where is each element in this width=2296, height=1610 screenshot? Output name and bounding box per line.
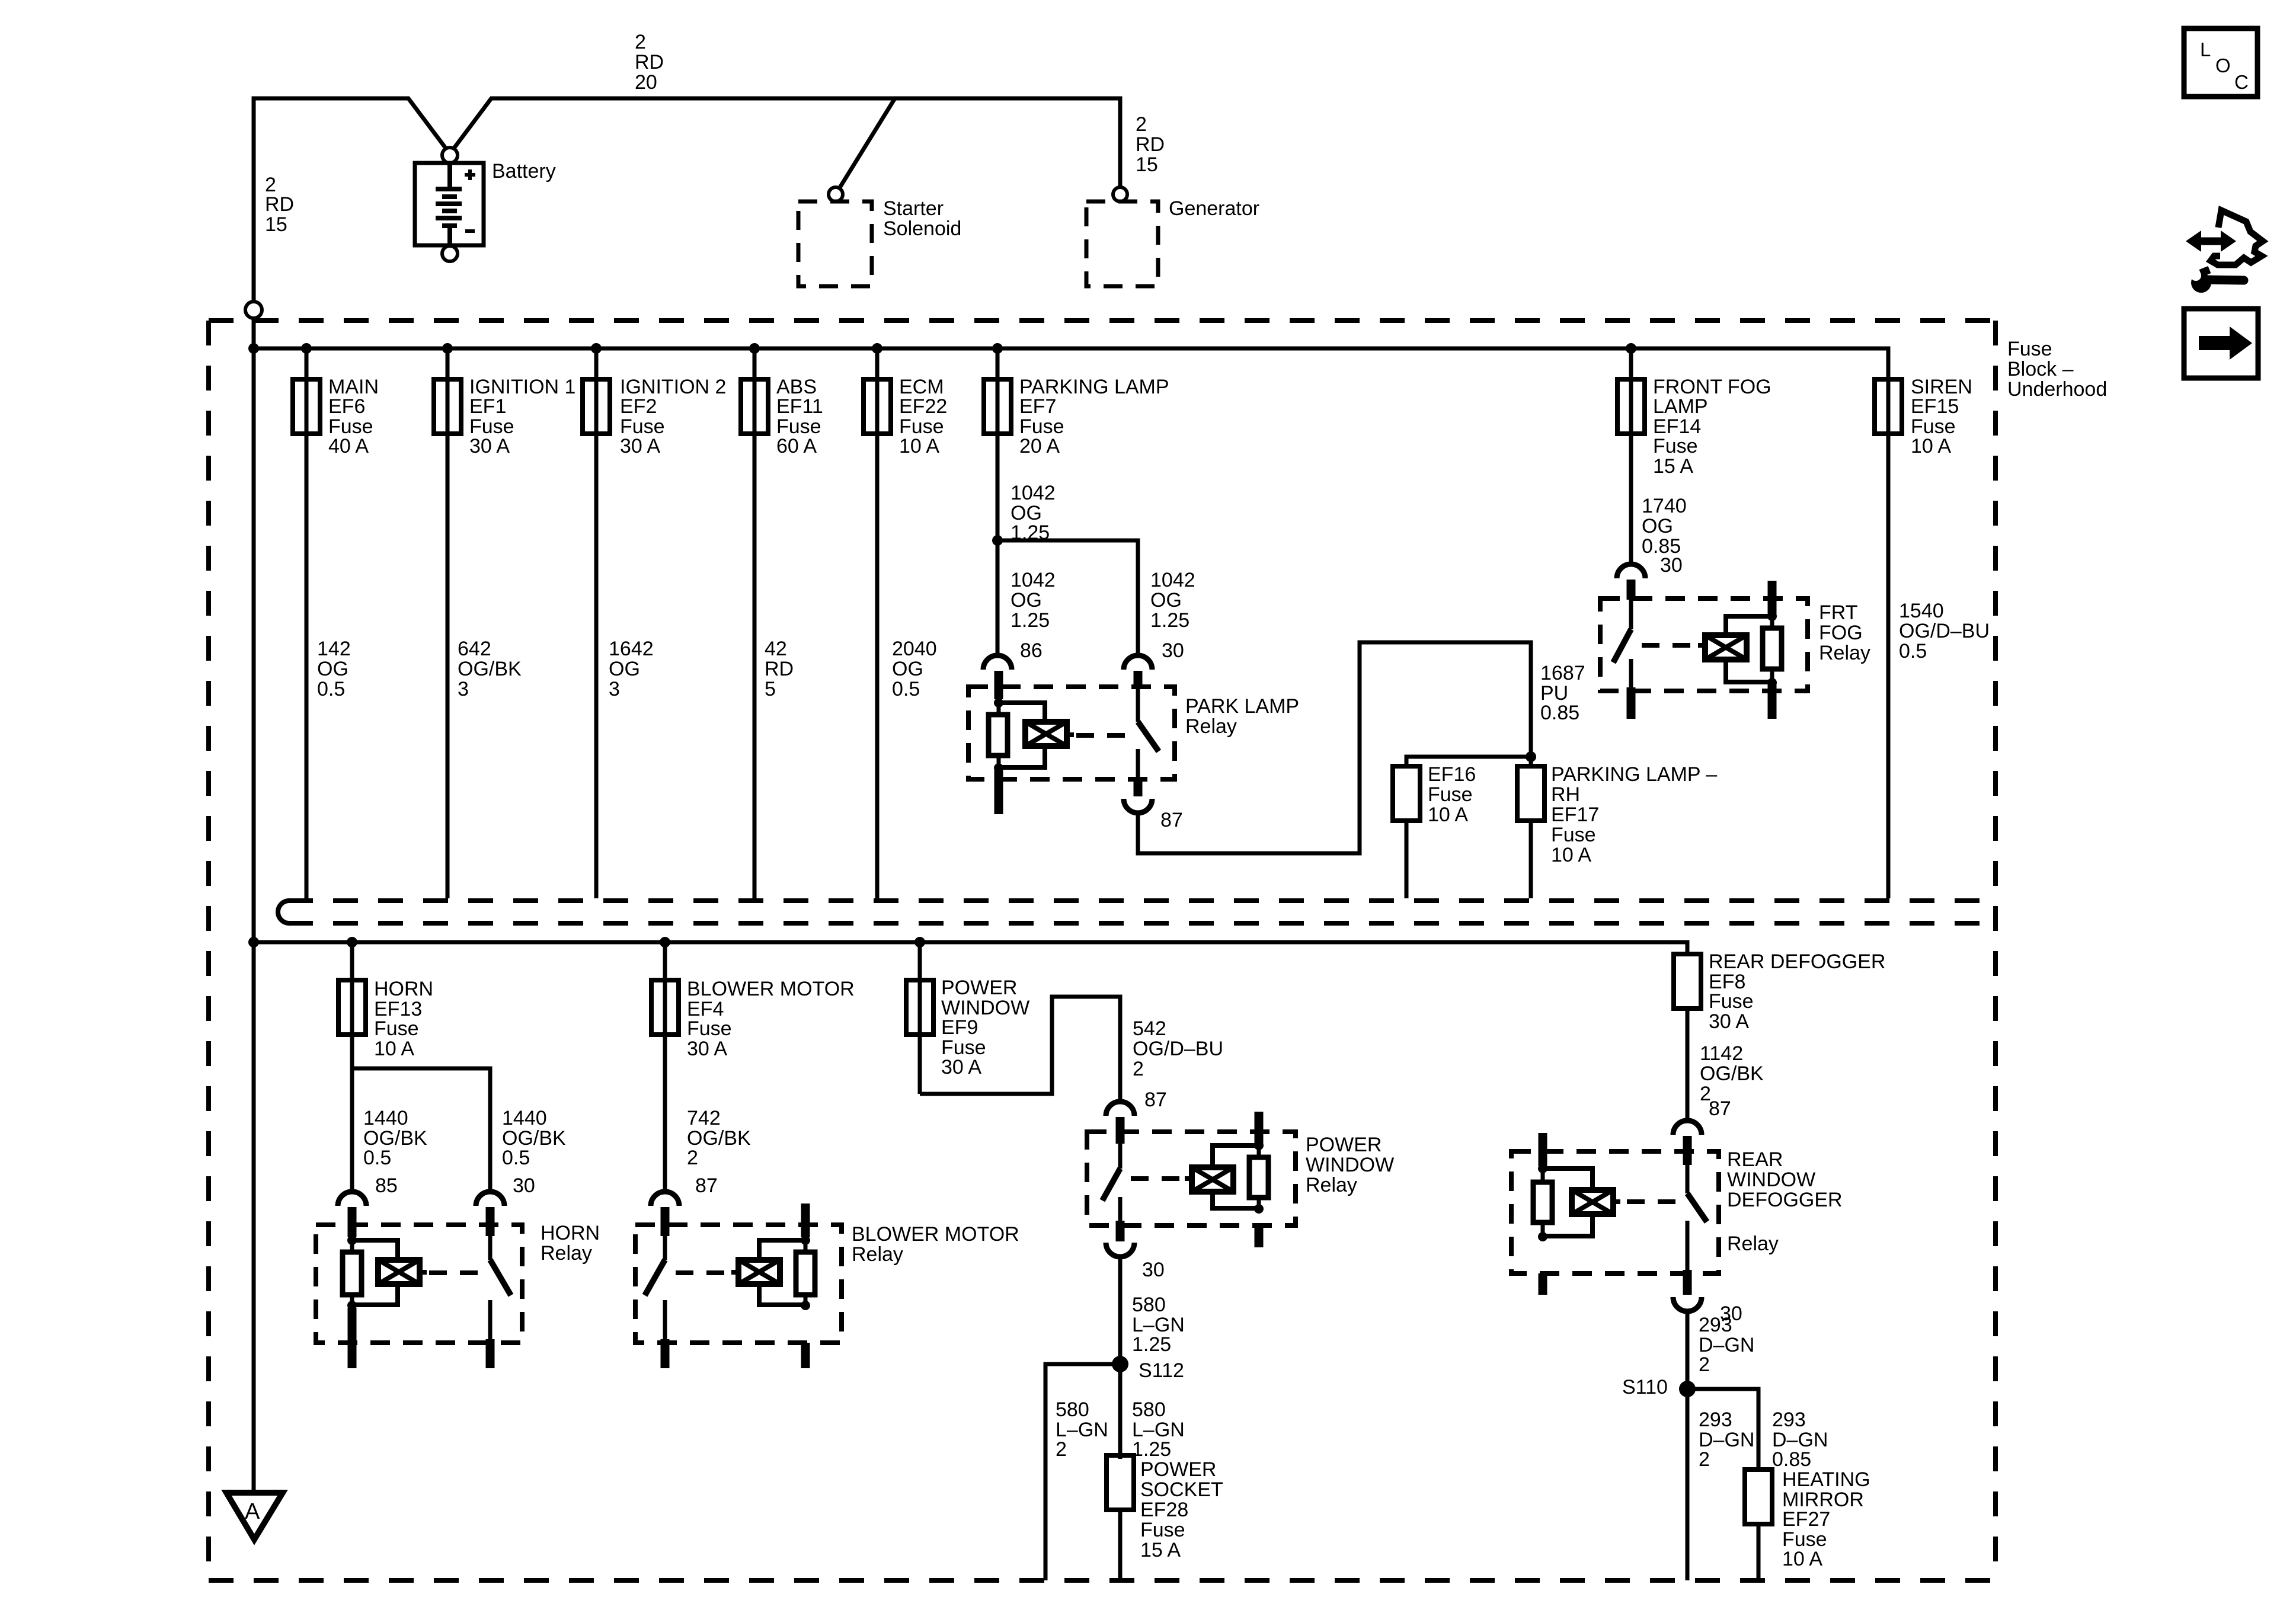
svg-text:0.85: 0.85 xyxy=(1772,1448,1811,1471)
svg-text:Relay: Relay xyxy=(541,1242,592,1265)
svg-text:1142: 1142 xyxy=(1700,1042,1743,1065)
svg-text:40 A: 40 A xyxy=(328,435,369,457)
battery xyxy=(415,163,484,245)
svg-text:1642: 1642 xyxy=(609,638,654,660)
svg-text:20 A: 20 A xyxy=(1019,435,1060,457)
svg-text:30: 30 xyxy=(1142,1259,1165,1281)
pin 87 connector arc xyxy=(1106,1102,1134,1116)
node rail2-feed xyxy=(248,937,259,948)
node PARK coil bottom xyxy=(994,763,1003,773)
fuse ECM EF22 xyxy=(864,379,891,434)
PARK coil bracket xyxy=(999,703,1045,722)
fuse block terminal circle on feed xyxy=(245,302,262,318)
svg-text:RH: RH xyxy=(1551,783,1580,806)
PW internal dashed link xyxy=(1131,1176,1183,1181)
svg-text:SOCKET: SOCKET xyxy=(1140,1478,1223,1501)
BLOWER pin 87 stub xyxy=(661,1207,670,1236)
svg-text:15: 15 xyxy=(265,213,287,236)
svg-text:BLOWER MOTOR: BLOWER MOTOR xyxy=(687,978,855,1000)
pin 87 connector arc xyxy=(1673,1121,1702,1135)
svg-text:C: C xyxy=(2234,71,2249,93)
fuse HORN EF13 wire xyxy=(350,942,354,1068)
PARK pin 87 connector arc xyxy=(1124,799,1152,813)
svg-text:BLOWER MOTOR: BLOWER MOTOR xyxy=(852,1223,1019,1246)
svg-text:HORN: HORN xyxy=(541,1222,600,1244)
svg-text:RD: RD xyxy=(635,51,664,73)
node parking lamp split S xyxy=(992,535,1003,546)
fuse FRONT FOG LAMP EF14 wire xyxy=(1629,348,1633,564)
ground A triangle xyxy=(226,1493,283,1539)
svg-text:Relay: Relay xyxy=(852,1243,903,1266)
PARK LAMP pin 86 stub xyxy=(994,671,1003,699)
resistor HORN coil xyxy=(343,1252,362,1295)
wire PARK 87 to EF16/EF17 feed xyxy=(1138,642,1531,853)
svg-text:EF28: EF28 xyxy=(1140,1499,1188,1521)
svg-text:142: 142 xyxy=(317,638,351,660)
svg-text:A: A xyxy=(245,1499,260,1524)
FOG coil bottom pin stub xyxy=(1768,684,1777,719)
svg-text:30: 30 xyxy=(1660,554,1683,577)
svg-text:LAMP: LAMP xyxy=(1653,395,1708,418)
svg-text:S110: S110 xyxy=(1622,1376,1668,1398)
svg-text:OG: OG xyxy=(1011,589,1042,612)
svg-text:5: 5 xyxy=(765,678,776,700)
generator terminal xyxy=(1113,187,1127,201)
fuse EF16 xyxy=(1393,766,1420,821)
node PW coil bottom xyxy=(1254,1204,1264,1214)
svg-text:OG: OG xyxy=(892,658,923,680)
svg-text:3: 3 xyxy=(458,678,469,700)
svg-text:Generator: Generator xyxy=(1169,197,1259,220)
svg-text:30 A: 30 A xyxy=(687,1038,727,1060)
fuse POWER WINDOW EF9 xyxy=(906,980,933,1035)
svg-text:Solenoid: Solenoid xyxy=(883,217,961,240)
svg-text:EF16: EF16 xyxy=(1428,763,1476,786)
PW switch bottom pin stub xyxy=(1116,1221,1125,1241)
svg-text:10 A: 10 A xyxy=(1911,435,1951,457)
wire EF28 to block edge xyxy=(1118,1510,1123,1580)
svg-text:Fuse: Fuse xyxy=(687,1017,732,1040)
PARK internal dashed link xyxy=(1076,733,1129,738)
relay FRT FOG box xyxy=(1600,598,1808,691)
FOG pin 30 stub xyxy=(1627,580,1636,600)
pin 85 connector arc xyxy=(338,1192,366,1206)
svg-text:87: 87 xyxy=(1709,1097,1731,1120)
svg-text:OG/BK: OG/BK xyxy=(1700,1062,1764,1085)
RWD coil bracket xyxy=(1543,1169,1593,1190)
relay BLOWER MOTOR box xyxy=(635,1225,842,1343)
svg-text:1540: 1540 xyxy=(1899,600,1944,622)
svg-text:60 A: 60 A xyxy=(776,435,817,457)
fuse ABS EF11 xyxy=(741,379,768,434)
svg-text:Relay: Relay xyxy=(1306,1174,1357,1196)
svg-text:O: O xyxy=(2215,55,2231,76)
PW coil bottom pin stub xyxy=(1255,1225,1264,1247)
fuse POWER SOCKET EF28 xyxy=(1107,1455,1134,1510)
svg-text:0.5: 0.5 xyxy=(1899,640,1927,662)
node rail1-IGN1 xyxy=(442,343,453,354)
svg-text:1440: 1440 xyxy=(363,1107,408,1129)
coil RWD X-box xyxy=(1572,1190,1620,1214)
svg-text:EF27: EF27 xyxy=(1782,1508,1830,1531)
node PW coil top xyxy=(1254,1141,1264,1150)
RWD coil wire through resistor xyxy=(1541,1169,1545,1237)
coil FRT FOG X-box xyxy=(1698,635,1747,660)
icon wrench and arrows xyxy=(2186,210,2263,293)
relay POWER WINDOW box xyxy=(1087,1132,1296,1225)
fuse ECM EF22 wire xyxy=(875,348,880,898)
svg-text:EF6: EF6 xyxy=(328,395,365,418)
battery negative terminal xyxy=(442,246,458,261)
wire battery feed: top horizontal from x428 to battery V xyxy=(254,98,447,151)
svg-text:L: L xyxy=(2200,39,2211,60)
svg-text:Fuse: Fuse xyxy=(1551,824,1596,846)
svg-text:FRT: FRT xyxy=(1819,601,1857,624)
fuse HORN EF13 xyxy=(338,980,366,1035)
icon LOC box xyxy=(2184,28,2257,97)
node rail1-IGN2 xyxy=(591,343,602,354)
svg-text:0.5: 0.5 xyxy=(317,678,345,700)
fuse PARKING LAMP - RH EF17 xyxy=(1517,766,1544,821)
svg-text:0.5: 0.5 xyxy=(502,1147,530,1169)
svg-text:2: 2 xyxy=(1699,1448,1710,1471)
svg-text:293: 293 xyxy=(1772,1409,1806,1431)
fuse HEATING MIRROR EF27 xyxy=(1745,1470,1772,1524)
PARK LAMP pin 30 stub xyxy=(1134,671,1143,689)
fuse BLOWER MOTOR EF4 xyxy=(651,980,679,1035)
svg-text:PARK LAMP: PARK LAMP xyxy=(1185,695,1299,718)
svg-text:1042: 1042 xyxy=(1011,482,1056,504)
FOG coil bracket xyxy=(1726,616,1772,635)
HORN pin 30 stub xyxy=(486,1207,495,1236)
fuse PARKING LAMP EF7 wire xyxy=(996,348,1000,540)
node FOG coil bottom xyxy=(1767,678,1777,687)
svg-text:10 A: 10 A xyxy=(1428,804,1468,826)
svg-text:PARKING LAMP –: PARKING LAMP – xyxy=(1551,763,1717,786)
svg-text:RD: RD xyxy=(765,658,794,680)
PW coil top pin stub xyxy=(1255,1112,1264,1147)
svg-text:30 A: 30 A xyxy=(1709,1010,1749,1033)
PW coil wire through resistor xyxy=(1257,1145,1261,1209)
node PARK coil top xyxy=(994,698,1003,708)
PARK coil wire through resistor xyxy=(997,703,1001,768)
svg-text:EF2: EF2 xyxy=(620,395,657,418)
svg-text:1.25: 1.25 xyxy=(1150,609,1189,632)
svg-text:EF1: EF1 xyxy=(469,395,506,418)
node BLOWER coil top xyxy=(801,1235,810,1245)
svg-text:0.5: 0.5 xyxy=(363,1147,391,1169)
fuse IGNITION 1 EF1 wire xyxy=(446,348,450,898)
slot left rounded end xyxy=(278,901,289,923)
svg-text:293: 293 xyxy=(1699,1314,1732,1336)
BLOWER coil wire through resistor xyxy=(804,1240,808,1305)
RWD coil top pin stub xyxy=(1539,1133,1547,1166)
svg-text:1.25: 1.25 xyxy=(1132,1438,1171,1461)
BLOWER coil bottom pin stub xyxy=(801,1343,810,1368)
PW coil bracket xyxy=(1213,1145,1259,1167)
svg-text:2: 2 xyxy=(1133,1058,1144,1080)
wire diagonal stub to starter solenoid terminal xyxy=(839,98,895,188)
BLOWER internal dashed link xyxy=(676,1270,728,1275)
svg-text:REAR DEFOGGER: REAR DEFOGGER xyxy=(1709,950,1885,973)
node RWD coil bottom xyxy=(1538,1232,1547,1241)
HORN switch bottom pin stub xyxy=(486,1339,495,1368)
svg-text:REAR: REAR xyxy=(1727,1148,1783,1171)
PW pin 30 connector arc xyxy=(1106,1243,1134,1257)
relay REAR WINDOW DEFOGGER box xyxy=(1511,1151,1719,1273)
fuse FRONT FOG LAMP EF14 xyxy=(1617,379,1645,434)
pin 30 connector arc xyxy=(476,1192,504,1206)
RWD coil bottom pin stub xyxy=(1539,1273,1547,1295)
fuse IGNITION 2 EF2 xyxy=(583,379,610,434)
fuse MAIN EF6 wire xyxy=(305,348,309,898)
switch PW xyxy=(1118,1144,1123,1169)
svg-text:POWER: POWER xyxy=(941,977,1017,999)
svg-text:3: 3 xyxy=(609,678,620,700)
svg-text:OG: OG xyxy=(317,658,348,680)
node rail1-ECM xyxy=(872,343,882,354)
node rail1-feed xyxy=(248,343,259,354)
switch HORN xyxy=(488,1236,493,1260)
svg-text:86: 86 xyxy=(1020,639,1043,662)
RWD switch bottom pin stub xyxy=(1683,1270,1692,1295)
svg-text:15 A: 15 A xyxy=(1140,1539,1181,1561)
wire EF17 to block edge xyxy=(1529,821,1533,898)
svg-text:Starter: Starter xyxy=(883,197,944,220)
svg-text:2: 2 xyxy=(1056,1438,1067,1461)
svg-text:Relay: Relay xyxy=(1727,1233,1779,1255)
switch PARK LAMP xyxy=(1136,689,1140,722)
node rail2-HORN xyxy=(347,937,357,948)
fuse REAR DEFOGGER EF8 xyxy=(1674,954,1701,1009)
RWD pin 30 connector arc xyxy=(1673,1297,1702,1311)
node FOG coil top xyxy=(1767,612,1777,621)
svg-text:Fuse: Fuse xyxy=(1140,1519,1185,1541)
svg-text:S112: S112 xyxy=(1139,1359,1184,1382)
svg-text:15: 15 xyxy=(1136,153,1158,176)
svg-text:Fuse: Fuse xyxy=(1709,990,1754,1013)
wire left branch to pin 86 xyxy=(996,540,1000,654)
PW pin 87 stub xyxy=(1116,1117,1125,1144)
bus rail 2 xyxy=(254,942,1687,954)
icon next-page arrow box xyxy=(2184,309,2258,378)
node rail1-PARKLAMP xyxy=(992,343,1003,354)
wire S112 branch left xyxy=(1045,1364,1120,1580)
svg-text:10 A: 10 A xyxy=(1782,1548,1822,1570)
resistor PARK coil xyxy=(989,715,1008,756)
fuse IGNITION 1 EF1 xyxy=(434,379,461,434)
FOG switch bottom pin stub xyxy=(1627,687,1636,719)
wire battery feed vertical x428 down to ground xyxy=(252,98,256,1493)
svg-text:1440: 1440 xyxy=(502,1107,547,1129)
svg-text:Fuse: Fuse xyxy=(1428,783,1473,806)
pin 86 connector arc xyxy=(983,655,1012,670)
wire split branch to pin 30 xyxy=(997,540,1138,654)
relay HORN box xyxy=(316,1225,522,1343)
wire RWD 30 down to S110 xyxy=(1686,1311,1690,1580)
svg-text:1042: 1042 xyxy=(1011,569,1056,591)
svg-text:542: 542 xyxy=(1133,1017,1166,1040)
svg-text:580: 580 xyxy=(1132,1294,1166,1316)
svg-text:HEATING: HEATING xyxy=(1782,1468,1870,1491)
switch RWD xyxy=(1686,1165,1690,1193)
node rail1-MAIN xyxy=(301,343,312,354)
svg-text:10 A: 10 A xyxy=(1551,844,1591,866)
fuse MAIN EF6 xyxy=(293,379,320,434)
svg-text:OG/BK: OG/BK xyxy=(458,658,522,680)
node HORN coil bottom xyxy=(347,1301,357,1310)
svg-text:20: 20 xyxy=(635,71,657,94)
svg-text:WINDOW: WINDOW xyxy=(1306,1154,1394,1176)
resistor FRT FOG coil xyxy=(1763,628,1782,669)
svg-text:OG/D–BU: OG/D–BU xyxy=(1899,620,1990,642)
fuse PARKING LAMP EF7 xyxy=(984,379,1011,434)
pin 87 connector arc xyxy=(651,1192,679,1206)
svg-text:Relay: Relay xyxy=(1185,715,1237,738)
svg-text:0.5: 0.5 xyxy=(892,678,920,700)
node S112 xyxy=(1112,1356,1128,1372)
svg-text:87: 87 xyxy=(1144,1089,1167,1111)
svg-text:EF15: EF15 xyxy=(1911,395,1959,418)
svg-text:10 A: 10 A xyxy=(899,435,939,457)
bus rail 1 xyxy=(254,348,1888,379)
switch FRT FOG xyxy=(1629,600,1633,629)
wire battery V right diagonal to solenoid/generator run xyxy=(452,98,1120,187)
FOG internal dashed link xyxy=(1642,643,1699,648)
svg-text:87: 87 xyxy=(1160,809,1183,831)
svg-text:2: 2 xyxy=(1136,113,1147,136)
HORN coil bracket xyxy=(352,1240,398,1260)
BLOWER coil bracket xyxy=(759,1240,805,1260)
svg-text:RD: RD xyxy=(265,193,294,216)
node rail1-ABS xyxy=(749,343,760,354)
fuse block inner dashed slot xyxy=(288,901,1996,923)
resistor BLOWER coil xyxy=(796,1252,815,1295)
coil BLOWER X-box xyxy=(731,1260,780,1284)
HORN coil bottom pin stub xyxy=(348,1308,357,1368)
svg-text:OG: OG xyxy=(1150,589,1182,612)
PARK coil bottom pin stub xyxy=(994,770,1003,814)
node S110 xyxy=(1679,1381,1696,1397)
FOG pin 30 connector arc xyxy=(1617,564,1645,578)
HORN internal dashed link xyxy=(429,1270,481,1275)
HORN pin 85 stub xyxy=(348,1207,357,1237)
node rail2-BLOWER xyxy=(660,937,670,948)
switch BLOWER xyxy=(663,1236,667,1260)
pin 30 connector arc xyxy=(1124,655,1152,670)
svg-text:2: 2 xyxy=(687,1147,698,1169)
svg-text:580: 580 xyxy=(1132,1398,1166,1421)
RWD internal dashed link xyxy=(1627,1199,1679,1204)
node rail2-PW xyxy=(914,937,925,948)
fuse IGNITION 2 EF2 wire xyxy=(594,348,599,898)
svg-text:42: 42 xyxy=(765,638,787,660)
svg-text:EF9: EF9 xyxy=(941,1016,978,1039)
RWD pin 87 stub xyxy=(1683,1136,1692,1165)
svg-text:293: 293 xyxy=(1699,1409,1732,1431)
svg-text:OG: OG xyxy=(609,658,640,680)
svg-text:30: 30 xyxy=(513,1174,535,1197)
fuse SIREN EF15 wire xyxy=(1886,379,1891,898)
relay PARK LAMP box xyxy=(968,687,1175,779)
wire EF9 jog to relay xyxy=(920,997,1120,1102)
svg-text:EF17: EF17 xyxy=(1551,804,1599,826)
svg-text:EF7: EF7 xyxy=(1019,395,1056,418)
svg-text:Fuse: Fuse xyxy=(1653,435,1698,457)
svg-text:15 A: 15 A xyxy=(1653,455,1693,478)
svg-text:EF11: EF11 xyxy=(776,395,823,418)
FOG coil top pin stub xyxy=(1768,581,1777,617)
wire S110 branch right xyxy=(1687,1389,1758,1470)
svg-text:1687: 1687 xyxy=(1540,662,1585,684)
node HORN coil top xyxy=(347,1235,357,1245)
wire EF8 down to relay xyxy=(1686,1009,1690,1122)
svg-text:1.25: 1.25 xyxy=(1011,609,1050,632)
PARK switch bottom pin stub xyxy=(1134,777,1143,796)
svg-text:1.25: 1.25 xyxy=(1132,1333,1171,1356)
starter solenoid box xyxy=(798,201,872,286)
svg-text:1740: 1740 xyxy=(1642,495,1687,517)
node BLOWER coil bottom xyxy=(801,1301,810,1310)
wire HORN split xyxy=(352,1068,490,1193)
svg-text:Relay: Relay xyxy=(1819,642,1870,664)
svg-text:30 A: 30 A xyxy=(620,435,660,457)
coil HORN X-box xyxy=(378,1260,427,1284)
svg-text:580: 580 xyxy=(1056,1398,1089,1421)
svg-text:OG: OG xyxy=(1642,515,1673,537)
resistor PW coil xyxy=(1249,1157,1268,1198)
svg-text:OG/D–BU: OG/D–BU xyxy=(1133,1038,1223,1060)
fuse POWER WINDOW EF9 wire xyxy=(918,942,922,1094)
coil PARK X-box xyxy=(1025,722,1074,746)
HORN coil wire through resistor xyxy=(350,1240,354,1305)
fuse block outer dashed border xyxy=(209,321,1996,1580)
svg-text:1042: 1042 xyxy=(1150,569,1195,591)
svg-text:30: 30 xyxy=(1162,639,1184,662)
svg-text:EF22: EF22 xyxy=(899,395,947,418)
svg-text:Underhood: Underhood xyxy=(2007,378,2107,401)
starter solenoid terminal xyxy=(829,187,843,201)
fuse BLOWER MOTOR EF4 wire xyxy=(663,942,667,1193)
BLOWER coil top pin stub xyxy=(801,1204,810,1237)
svg-text:Battery: Battery xyxy=(492,160,556,183)
svg-text:DEFOGGER: DEFOGGER xyxy=(1727,1189,1843,1211)
svg-text:87: 87 xyxy=(695,1174,718,1197)
svg-text:POWER: POWER xyxy=(1140,1458,1216,1481)
BLOWER switch bottom pin stub xyxy=(661,1339,670,1368)
resistor RWD coil xyxy=(1533,1182,1552,1222)
wire EF16 to block edge xyxy=(1405,821,1409,898)
fuse SIREN EF15 xyxy=(1875,379,1902,434)
wire branch to EF16 xyxy=(1406,757,1531,766)
node EF17 junction xyxy=(1526,751,1536,762)
svg-text:2: 2 xyxy=(635,31,646,53)
svg-text:HORN: HORN xyxy=(374,978,433,1000)
svg-text:30 A: 30 A xyxy=(469,435,510,457)
svg-text:RD: RD xyxy=(1136,133,1165,156)
battery B+ terminal xyxy=(442,148,458,163)
svg-text:2: 2 xyxy=(1699,1353,1710,1376)
svg-text:0.85: 0.85 xyxy=(1540,702,1579,724)
node rail1-FOG xyxy=(1626,343,1636,354)
svg-text:642: 642 xyxy=(458,638,491,660)
svg-text:Fuse: Fuse xyxy=(374,1017,419,1040)
wire EF27 to block edge xyxy=(1757,1524,1761,1580)
svg-text:85: 85 xyxy=(375,1174,398,1197)
FOG coil wire through resistor xyxy=(1770,616,1774,683)
generator box xyxy=(1086,201,1158,286)
coil PW X-box xyxy=(1185,1167,1233,1192)
